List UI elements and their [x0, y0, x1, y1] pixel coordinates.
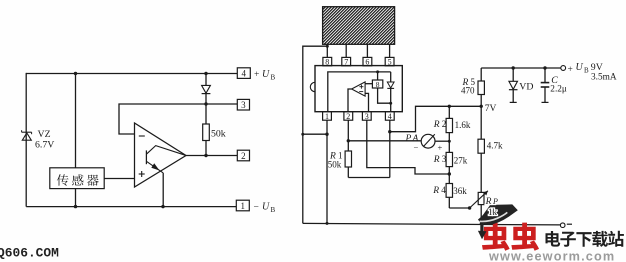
wire op-amp output to pin 2 [348, 89, 352, 112]
wire block to pin 6 [366, 44, 368, 57]
junction wiper tail [468, 206, 471, 209]
terminal minus [560, 223, 572, 228]
terminal 4 with label +UB [237, 68, 275, 82]
label R1 50k [328, 151, 343, 170]
label R5 470 [461, 77, 476, 96]
svg-text:+: + [254, 70, 259, 80]
resistor 50k (left circuit) [203, 104, 210, 156]
svg-text:2: 2 [346, 112, 350, 121]
IC U1 body [310, 66, 402, 112]
wire pin2 to meter minus [348, 140, 421, 142]
svg-text:7V: 7V [485, 104, 497, 114]
pin 2 [344, 112, 353, 121]
logo 电子下载站 [546, 231, 624, 247]
label PA [405, 134, 419, 144]
resistor 4.7k [478, 106, 484, 192]
junction R3-R4 / pin3 wire [448, 172, 451, 175]
junction left rail / pin8 stub [326, 45, 329, 48]
wire sensor top [75, 74, 77, 168]
terminal + UB 9V [561, 62, 617, 82]
junction pin1 column / left-rail link [325, 133, 328, 136]
svg-text:6.7V: 6.7V [35, 140, 54, 151]
op-amp A (left circuit) [135, 123, 187, 187]
svg-text:−: − [254, 203, 259, 213]
wire diode column to pin 4 [390, 103, 392, 111]
junction bottom rail / sensor column [74, 205, 77, 208]
wire ref box to diode column [378, 88, 391, 103]
svg-text:2: 2 [442, 119, 447, 129]
svg-text:4: 4 [242, 69, 247, 79]
pin 1 [323, 112, 332, 121]
svg-text:1: 1 [241, 201, 246, 211]
junction 7V node [480, 105, 483, 108]
label C 2.2u [550, 75, 567, 95]
svg-text:7: 7 [344, 58, 348, 67]
svg-text:3: 3 [365, 112, 369, 121]
capacitor C 2.2u [541, 68, 550, 102]
pin 7 [342, 57, 351, 66]
svg-text:B: B [271, 206, 276, 214]
junction internal rail / ref box [376, 70, 379, 73]
junction output / 50k column [204, 154, 207, 157]
junction feedback / diode column [204, 102, 207, 105]
wire R1 bottom to pin4 column [348, 177, 390, 179]
wire left rail of left circuit [25, 73, 27, 207]
svg-text:R: R [432, 186, 439, 196]
wire block to pin 5 [389, 44, 391, 57]
svg-text:1: 1 [325, 112, 329, 121]
svg-text:3.5mA: 3.5mA [591, 72, 617, 82]
transistor inside op-amp [146, 146, 185, 173]
svg-text:Q606.COM: Q606.COM [0, 246, 59, 261]
potentiometer RP [470, 191, 488, 224]
pin 6 [363, 57, 372, 66]
meter PA [421, 134, 435, 148]
svg-text:R: R [433, 155, 440, 165]
label VZ 6.7V [35, 129, 54, 151]
resistor R3 27k [446, 152, 452, 183]
label RP 1k [485, 197, 498, 217]
wire bottom rail of left circuit [26, 206, 236, 208]
svg-text:5: 5 [388, 58, 392, 67]
wire sensor bottom [75, 189, 77, 207]
label R2 1.6k [433, 119, 471, 130]
resistor R2 1.6k [446, 106, 452, 152]
svg-text:B: B [271, 73, 276, 81]
junction pin4 column / supply link [388, 130, 391, 133]
wire block to pin 7 [345, 44, 347, 57]
internal op-amp of IC [352, 82, 366, 96]
junction 7V rail / R2 top [448, 105, 451, 108]
svg-text:R: R [485, 197, 492, 207]
svg-text:4.7k: 4.7k [487, 141, 503, 151]
svg-text:3: 3 [442, 154, 447, 164]
svg-text:U: U [262, 69, 270, 80]
internal diode of IC [387, 72, 394, 103]
svg-text:3: 3 [241, 100, 246, 110]
zener diode VZ [22, 130, 32, 140]
wire pin 4 down [389, 120, 391, 177]
junction top rail / sensor column [74, 72, 77, 75]
svg-text:4: 4 [388, 112, 392, 121]
svg-text:4: 4 [441, 185, 446, 195]
svg-text:U: U [262, 202, 270, 213]
svg-text:P: P [405, 134, 412, 144]
resistor R4 36k [446, 184, 452, 209]
svg-text:470: 470 [461, 86, 475, 96]
wire pin 1 down to bottom rail [326, 120, 328, 223]
svg-text:−: − [414, 142, 419, 152]
terminal 1 with label -UB [236, 200, 275, 214]
pin 4 [385, 112, 394, 121]
wire feedback minus input [119, 104, 237, 134]
sensor box 传感器 [50, 168, 104, 189]
junction top rail / VD [512, 66, 515, 69]
junction top rail / diode column [204, 72, 207, 75]
wire meter to R2-R3 junction [435, 140, 449, 142]
internal reference box 8 [372, 72, 382, 89]
svg-text:+: + [568, 65, 573, 75]
wire op-amp output to terminal 2 [186, 155, 237, 157]
svg-text:50k: 50k [211, 129, 226, 140]
svg-text:1.6k: 1.6k [455, 120, 471, 130]
wire top rail of left circuit [26, 73, 237, 75]
resistor R5 470 [478, 68, 484, 106]
svg-text:www.eeworm.com: www.eeworm.com [488, 249, 615, 262]
svg-text:VZ: VZ [38, 129, 51, 140]
svg-text:8: 8 [325, 58, 329, 67]
logo 虫虫 [482, 223, 539, 251]
svg-text:36k: 36k [453, 186, 467, 196]
label R3 27k [433, 154, 468, 165]
svg-text:P: P [492, 197, 498, 206]
wire bottom rail of right circuit [303, 223, 561, 225]
wire left rail of right circuit [303, 46, 328, 223]
junction bottom rail / emitter column [161, 205, 164, 208]
wire op-amp plus to ref box [365, 83, 372, 85]
terminal 3 [237, 99, 249, 110]
svg-text:27k: 27k [454, 155, 468, 165]
svg-text:6: 6 [365, 58, 369, 67]
svg-text:50k: 50k [328, 159, 342, 169]
wire top rail of right circuit [481, 67, 560, 69]
label R4 36k [432, 185, 467, 196]
pin 3 [362, 112, 371, 121]
svg-text:+: + [438, 143, 443, 153]
wire emitter to bottom rail [162, 173, 164, 207]
svg-text:1k: 1k [488, 207, 498, 217]
diode VD [509, 68, 518, 102]
svg-text:R: R [433, 120, 440, 130]
junction diode column / ref wire [389, 102, 392, 105]
wire pin 2 down [347, 120, 349, 151]
junction top rail / C [543, 66, 546, 69]
wire sensor output to op-amp + [104, 178, 134, 180]
svg-text:VD: VD [519, 82, 533, 93]
svg-text:B: B [584, 67, 589, 75]
wire op-amp minus to pin 3 [365, 93, 368, 111]
svg-text:8: 8 [376, 80, 380, 89]
junction left rail / pin1 link [301, 133, 304, 136]
wire R4 to RP wiper [449, 207, 469, 209]
wire block to pin 8 [326, 44, 328, 57]
wire pin1 column to left rail [303, 133, 327, 135]
junction meter / resistor chain [448, 140, 451, 143]
svg-text:U: U [576, 62, 584, 73]
pin 5 [385, 57, 394, 66]
wire pin 3 jog to R3-R4 junction [367, 120, 449, 174]
logo graduation cap [478, 204, 518, 239]
junction bottom rail / RP column [480, 222, 483, 225]
junction bottom rail / pin1 column [326, 222, 329, 225]
internal wire pin1 to diode column [328, 72, 391, 112]
diode D (left circuit) [202, 74, 211, 105]
junction pin2 column / meter wire [347, 139, 350, 142]
svg-text:2.2μ: 2.2μ [550, 85, 567, 95]
terminal 2 [237, 150, 249, 161]
svg-text:2: 2 [241, 151, 246, 161]
resistor R1 50k [345, 151, 351, 178]
hatched sensor block [285, 7, 434, 45]
wire pin4 to 7V rail [390, 106, 481, 131]
pin 8 [323, 57, 332, 66]
